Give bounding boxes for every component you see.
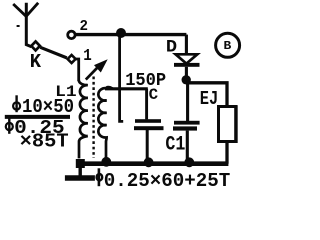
fraction bar xyxy=(5,115,70,119)
capacitor C1 bottom lead xyxy=(186,131,189,162)
svg-text:K: K xyxy=(30,51,42,73)
inductor L1 primary winding xyxy=(79,80,88,158)
wire secondary top to capacitor C xyxy=(105,87,148,90)
inductor secondary winding xyxy=(98,87,112,158)
svg-text:150P: 150P xyxy=(125,70,166,91)
label phi 0.25 wire spec xyxy=(8,118,10,134)
capacitor C bottom plate xyxy=(134,126,164,130)
diode D anode lead xyxy=(185,35,188,55)
junction node C bottom xyxy=(144,157,154,167)
svg-text:10×50: 10×50 xyxy=(22,96,74,118)
svg-text:B: B xyxy=(224,39,232,53)
capacitor C1 top plate xyxy=(174,121,200,125)
svg-text:1: 1 xyxy=(83,46,92,65)
earphone EJ body xyxy=(219,107,237,142)
capacitor C1 top lead xyxy=(186,83,189,121)
diode D triangle xyxy=(176,54,198,63)
switch K pole contact xyxy=(31,41,40,50)
arrow adjustable core xyxy=(86,68,97,80)
svg-text:0.25×60+25T: 0.25×60+25T xyxy=(104,170,231,191)
bottom rail wire xyxy=(76,161,228,166)
svg-text:2: 2 xyxy=(80,18,89,35)
antenna xyxy=(26,3,31,47)
ferrite core dashed line xyxy=(92,77,94,159)
switch contact 1 xyxy=(68,55,76,63)
junction node C1 bottom xyxy=(184,157,194,167)
wire diode to earphone EJ xyxy=(186,83,227,107)
junction node coil bottom xyxy=(101,157,111,167)
junction node ground xyxy=(76,159,85,168)
capacitor C bottom lead xyxy=(146,130,149,162)
svg-text:×85T: ×85T xyxy=(20,130,69,152)
earphone EJ bottom lead xyxy=(225,142,228,164)
wire top rail xyxy=(76,33,187,36)
capacitor C top plate xyxy=(135,119,161,123)
wire junction down with foot xyxy=(120,35,124,122)
svg-text:C1: C1 xyxy=(165,134,185,157)
earphone EJ right edge xyxy=(234,106,237,143)
svg-text:D: D xyxy=(166,38,177,58)
switch arm wire xyxy=(40,47,67,58)
label phi 10x50 rod spec xyxy=(15,95,17,112)
capacitor C1 bottom plate xyxy=(173,126,197,130)
diode D cathode bar xyxy=(174,63,200,67)
svg-text:C: C xyxy=(149,86,159,104)
svg-text:EJ: EJ xyxy=(200,88,219,110)
junction node top xyxy=(116,28,126,38)
figure mark circle B xyxy=(216,33,240,57)
diode D cathode lead xyxy=(185,67,188,77)
ground xyxy=(78,166,81,176)
wire contact 1 to L1 xyxy=(76,59,79,81)
label phi 0.25x60+25T winding spec xyxy=(98,168,101,186)
junction node diode output xyxy=(182,75,191,84)
terminal 2 xyxy=(68,31,75,38)
speck near antenna xyxy=(17,25,20,27)
